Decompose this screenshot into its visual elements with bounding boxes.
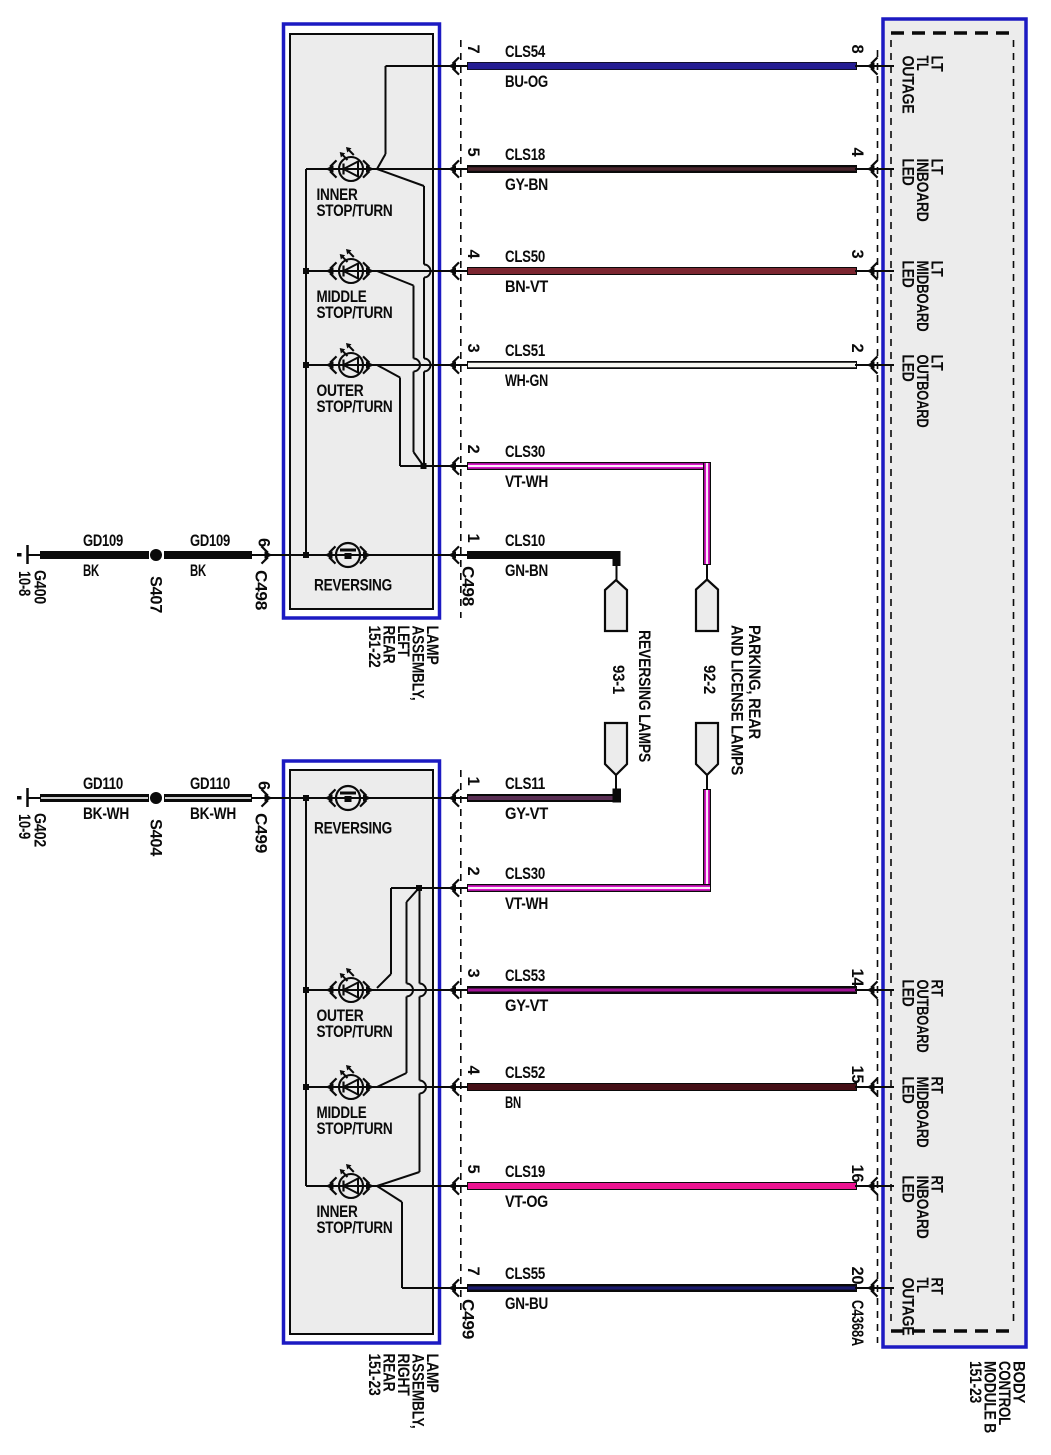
labels CLS50 — [464, 248, 866, 296]
junction dot bus/outer — [303, 362, 309, 368]
svg-text:LED: LED — [899, 355, 917, 382]
svg-text:CLS54: CLS54 — [505, 43, 546, 61]
wire CLS11 GY-VT — [467, 789, 621, 803]
pin 6 arrow C499 ground — [252, 789, 467, 806]
labels CLS53 — [464, 967, 866, 1015]
off-page connector parking lamps bottom — [696, 723, 718, 789]
wire CLS30 VT-WH (left) — [424, 462, 712, 470]
pin 5 arrow C498 row CLS18 — [448, 160, 460, 177]
svg-text:PARKING, REAR: PARKING, REAR — [745, 625, 763, 739]
svg-text:3: 3 — [464, 969, 482, 978]
svg-text:GY-VT: GY-VT — [505, 805, 548, 823]
svg-text:OUTAGE: OUTAGE — [899, 56, 917, 114]
pin 3 arrow C498 row CLS51 — [448, 356, 460, 373]
label G402 10-9 — [15, 813, 49, 847]
svg-text:3: 3 — [848, 250, 866, 259]
wire GD110 BK-WH segment 1 — [40, 794, 149, 802]
labels CLS54 — [464, 43, 866, 91]
svg-text:14: 14 — [848, 969, 866, 988]
label 93-1 — [609, 665, 627, 694]
label middle stop/turn (left) — [317, 288, 393, 322]
pin 1 arrow C498 row CLS10 — [448, 546, 460, 563]
svg-text:4: 4 — [464, 250, 482, 260]
svg-text:2: 2 — [848, 344, 866, 353]
pin 8 arrow BCM row CLS54 — [866, 57, 878, 74]
label reversing (left) — [314, 577, 392, 595]
labels CLS55 — [459, 1265, 867, 1346]
svg-text:BK-WH: BK-WH — [83, 805, 129, 823]
svg-text:BN: BN — [505, 1094, 521, 1112]
pin 3 arrow C499 row CLS53 — [448, 981, 460, 998]
pin 14 arrow BCM row CLS53 — [866, 981, 878, 998]
node CLS18/CLS54 junction diagonal — [377, 169, 424, 186]
label outer stop/turn (left) — [317, 382, 393, 416]
svg-text:C4368A: C4368A — [848, 1300, 866, 1346]
label 6 C499 ground — [252, 781, 273, 853]
pin 3 arrow BCM row CLS50 — [866, 262, 878, 279]
connector C499 dashed line — [460, 770, 462, 1316]
svg-text:VT-WH: VT-WH — [505, 895, 548, 913]
BCM label LT OUTBOARD LED — [899, 355, 946, 428]
svg-text:WH-GN: WH-GN — [505, 372, 548, 390]
svg-text:7: 7 — [464, 45, 482, 54]
wire CLS55 GN-BU — [402, 1284, 894, 1292]
wire CLS18 GY-BN — [306, 165, 894, 173]
label 92-2 — [700, 665, 718, 694]
junction dot bus/outer (right lamp) — [303, 987, 309, 993]
label lamp assembly left rear 151-22 — [365, 626, 441, 701]
labels CLS10 — [459, 532, 549, 606]
connector C498 dashed line — [460, 40, 462, 618]
junction dot bus/middle — [303, 268, 309, 274]
svg-text:15: 15 — [848, 1066, 866, 1084]
label 6 C498 ground — [252, 538, 273, 610]
svg-text:BU-OG: BU-OG — [505, 73, 548, 91]
wire CLS10 GN-BN — [467, 551, 621, 580]
svg-text:CLS53: CLS53 — [505, 967, 545, 985]
pin 20 arrow BCM row CLS55 — [866, 1279, 878, 1296]
label S404 — [147, 819, 165, 857]
svg-text:C498: C498 — [252, 570, 270, 610]
svg-text:CLS51: CLS51 — [505, 342, 545, 360]
ground G400 symbol — [17, 545, 40, 564]
LED middle stop/turn (left) — [325, 249, 375, 283]
ground G402 symbol — [17, 788, 40, 807]
svg-text:4: 4 — [464, 1066, 482, 1076]
svg-text:CLS55: CLS55 — [505, 1265, 545, 1283]
svg-text:C498: C498 — [459, 566, 477, 606]
label G400 10-8 — [15, 570, 49, 604]
svg-text:2: 2 — [464, 867, 482, 876]
svg-text:BN-VT: BN-VT — [505, 278, 548, 296]
labels CLS18 — [464, 146, 866, 194]
labels CLS30 left — [464, 443, 548, 491]
wire GD109 BK segment 1 — [40, 551, 149, 559]
svg-text:CLS18: CLS18 — [505, 146, 545, 164]
svg-text:VT-OG: VT-OG — [505, 1193, 548, 1211]
pin 1 arrow C499 row CLS11 — [448, 789, 460, 806]
svg-text:6: 6 — [255, 781, 273, 790]
svg-text:STOP/TURN: STOP/TURN — [317, 1023, 393, 1041]
wire middle-LED vertical to CLS30 junction — [413, 286, 424, 467]
svg-text:BK: BK — [83, 562, 99, 580]
bulb reversing (left) — [324, 543, 372, 567]
svg-text:93-1: 93-1 — [609, 665, 627, 694]
connector C4368A dashed line — [877, 50, 879, 1343]
LED outer stop/turn (right lamp) — [325, 968, 375, 1002]
svg-text:GD110: GD110 — [83, 775, 123, 793]
pin 2 arrow C499 row CLS30 — [448, 879, 460, 896]
svg-text:GD110: GD110 — [190, 775, 230, 793]
label lamp assembly right rear 151-23 — [365, 1354, 441, 1429]
svg-text:LED: LED — [899, 1077, 917, 1104]
svg-text:10-9: 10-9 — [15, 814, 33, 839]
svg-text:GD109: GD109 — [83, 532, 123, 550]
LED inner stop/turn (right lamp) — [325, 1164, 375, 1198]
svg-text:VT-WH: VT-WH — [505, 473, 548, 491]
label S407 — [147, 576, 165, 613]
pin 6 arrow C498 ground — [252, 546, 467, 563]
wire CLS54 bend inside left lamp — [377, 66, 387, 169]
LED outer stop/turn (left) — [325, 343, 375, 377]
svg-text:S407: S407 — [147, 576, 165, 613]
svg-text:GN-BN: GN-BN — [505, 562, 548, 580]
label outer stop/turn (right lamp) — [317, 1007, 393, 1041]
bulb reversing (right lamp) — [324, 786, 372, 810]
svg-text:CLS30: CLS30 — [505, 865, 545, 883]
label reversing lamps — [635, 630, 653, 762]
svg-text:1: 1 — [464, 777, 482, 786]
BCM label LT INBOARD LED — [899, 159, 946, 222]
pin 5 arrow C499 row CLS19 — [448, 1177, 460, 1194]
body control module box — [883, 19, 1026, 1347]
right lamp ground bus — [305, 798, 307, 1186]
svg-text:20: 20 — [848, 1267, 866, 1285]
pin 4 arrow C499 row CLS52 — [448, 1078, 460, 1095]
LED middle stop/turn (right lamp) — [325, 1065, 375, 1099]
svg-text:92-2: 92-2 — [700, 665, 718, 694]
BCM label LT MIDBOARD LED — [899, 261, 946, 332]
wire outer-LED vertical to CLS30 junction — [399, 378, 424, 468]
svg-text:C499: C499 — [252, 813, 270, 853]
node outer junction diagonal — [377, 365, 400, 378]
wire CLS30 vertical from parking pentagon bottom — [703, 789, 711, 892]
pin 4 arrow C498 row CLS50 — [448, 262, 460, 279]
svg-text:6: 6 — [255, 538, 273, 547]
junction dot bus/middle (right lamp) — [303, 1084, 309, 1090]
labels CLS30 right — [464, 865, 548, 913]
pin 7 arrow C499 row CLS55 — [448, 1279, 460, 1296]
junction dot bus/reversing (right lamp) — [303, 795, 309, 801]
svg-text:10-8: 10-8 — [15, 571, 33, 596]
svg-text:STOP/TURN: STOP/TURN — [317, 1120, 393, 1138]
junction dot CLS30 right lamp — [416, 885, 422, 891]
wire CLS52 BN — [306, 1083, 894, 1091]
pin 16 arrow BCM row CLS19 — [866, 1177, 878, 1194]
svg-text:LED: LED — [899, 980, 917, 1007]
svg-text:REVERSING: REVERSING — [314, 577, 392, 595]
lamp assembly right rear box — [284, 761, 440, 1343]
svg-text:GY-BN: GY-BN — [505, 176, 548, 194]
node middle junction diagonal — [377, 271, 414, 286]
wire inner-LED to CLS55 diagonal — [377, 1186, 403, 1288]
wire inner-LED vertical to CLS30 junction — [423, 186, 431, 466]
svg-text:STOP/TURN: STOP/TURN — [317, 398, 393, 416]
junction dot CLS30 left — [421, 463, 427, 469]
svg-text:C499: C499 — [459, 1299, 477, 1339]
off-page connector reversing lamps top — [605, 580, 627, 631]
left lamp ground bus — [305, 169, 307, 555]
wire CLS54 BU-OG — [386, 62, 895, 70]
svg-text:STOP/TURN: STOP/TURN — [317, 304, 393, 322]
pin 2 arrow BCM row CLS51 — [866, 356, 878, 373]
BCM label RT OUTBOARD LED — [899, 980, 946, 1053]
label inner stop/turn (right lamp) — [317, 1203, 393, 1237]
svg-text:REVERSING LAMPS: REVERSING LAMPS — [635, 630, 653, 762]
svg-text:GY-VT: GY-VT — [505, 997, 548, 1015]
label GD109 BK 1 — [83, 532, 123, 580]
wire CLS30 to outer-LED (right lamp) — [377, 888, 392, 988]
labels CLS11 — [464, 775, 548, 823]
pin 7 arrow C498 row CLS54 — [448, 57, 460, 74]
off-page connector reversing lamps bottom — [605, 723, 627, 789]
label parking rear and license lamps — [728, 625, 764, 775]
svg-text:8: 8 — [848, 45, 866, 54]
svg-text:2: 2 — [464, 445, 482, 454]
svg-text:REVERSING: REVERSING — [314, 820, 392, 838]
labels CLS19 — [464, 1163, 866, 1211]
svg-text:STOP/TURN: STOP/TURN — [317, 1219, 393, 1237]
svg-text:STOP/TURN: STOP/TURN — [317, 202, 393, 220]
wire GD110 BK-WH segment 2 — [164, 794, 252, 802]
labels CLS52 — [464, 1064, 866, 1112]
junction dot bus/reversing (left) — [303, 552, 309, 558]
pin 15 arrow BCM row CLS52 — [866, 1078, 878, 1095]
svg-text:CLS11: CLS11 — [505, 775, 545, 793]
wire CLS51 WH-GN — [306, 361, 894, 369]
svg-text:CLS10: CLS10 — [505, 532, 545, 550]
svg-text:CLS30: CLS30 — [505, 443, 545, 461]
svg-text:BK: BK — [190, 562, 206, 580]
BCM label RT TL OUTAGE — [899, 1278, 946, 1336]
label GD109 BK 2 — [190, 532, 230, 580]
svg-text:GN-BU: GN-BU — [505, 1295, 548, 1313]
svg-text:5: 5 — [464, 148, 482, 157]
label GD110 BK-WH 2 — [190, 775, 236, 823]
label reversing (right lamp) — [314, 820, 392, 838]
svg-text:CLS19: CLS19 — [505, 1163, 545, 1181]
svg-text:7: 7 — [464, 1267, 482, 1276]
svg-text:LED: LED — [899, 159, 917, 186]
svg-text:GD109: GD109 — [190, 532, 230, 550]
BCM label LT TL OUTAGE — [899, 56, 946, 114]
label inner stop/turn (left) — [317, 186, 393, 220]
BCM label RT INBOARD LED — [899, 1176, 946, 1239]
LED inner stop/turn (left) — [325, 147, 375, 181]
labels CLS51 — [464, 342, 866, 390]
wire CLS50 BN-VT — [306, 267, 894, 275]
svg-text:S404: S404 — [147, 819, 165, 857]
splice S404 — [150, 792, 162, 804]
svg-text:AND LICENSE LAMPS: AND LICENSE LAMPS — [728, 625, 746, 775]
svg-text:4: 4 — [848, 148, 866, 158]
wire CLS30 to middle-LED (right lamp) — [377, 888, 419, 1087]
label GD110 BK-WH 1 — [83, 775, 129, 823]
svg-text:151-22: 151-22 — [365, 626, 383, 668]
label body control module B 151-23 — [966, 1361, 1028, 1433]
svg-text:151-23: 151-23 — [966, 1361, 984, 1403]
splice S407 — [150, 549, 162, 561]
off-page connector parking lamps top — [696, 580, 718, 632]
svg-text:CLS52: CLS52 — [505, 1064, 545, 1082]
wire CLS53 GY-VT — [306, 986, 894, 994]
pin 2 arrow C498 row CLS30 — [448, 457, 460, 474]
svg-text:BK-WH: BK-WH — [190, 805, 236, 823]
BCM label RT MIDBOARD LED — [899, 1077, 946, 1148]
wire CLS30 to inner-LED (right lamp) — [377, 888, 426, 1186]
svg-text:5: 5 — [464, 1165, 482, 1174]
svg-text:3: 3 — [464, 344, 482, 353]
svg-text:1: 1 — [464, 534, 482, 543]
wire CLS30 VT-WH (right lamp) — [391, 884, 711, 892]
svg-text:CLS50: CLS50 — [505, 248, 545, 266]
lamp assembly left rear box — [284, 24, 440, 618]
svg-text:LED: LED — [899, 1176, 917, 1203]
svg-text:LED: LED — [899, 261, 917, 288]
svg-text:151-23: 151-23 — [365, 1354, 383, 1396]
wire GD109 BK segment 2 — [164, 551, 252, 559]
wire CLS19 VT-OG — [306, 1182, 894, 1190]
pin 4 arrow BCM row CLS18 — [866, 160, 878, 177]
svg-text:16: 16 — [848, 1165, 866, 1183]
wire CLS30 vertical to parking pentagon — [703, 462, 711, 580]
svg-text:OUTAGE: OUTAGE — [899, 1278, 917, 1336]
label middle stop/turn (right lamp) — [317, 1104, 393, 1138]
